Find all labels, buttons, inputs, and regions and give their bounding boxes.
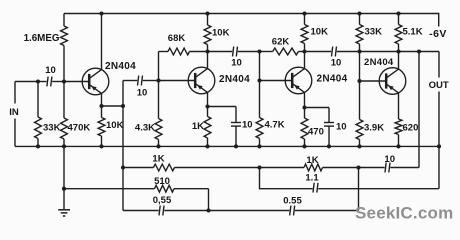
wire top -6V rail: [64, 13, 439, 15]
node x123 junction: [121, 104, 125, 108]
wire Q2 collector up: [207, 52, 209, 69]
wire rowA drop to 1.1 row: [259, 168, 261, 190]
node Q4 base junction: [357, 79, 361, 83]
capacitor C9 0.55 (feedback): [159, 206, 160, 216]
wire Q1 collector to rail: [101, 14, 103, 70]
wire 4.3K top lead: [158, 81, 160, 119]
wire 4.7K bottom lead: [259, 139, 261, 147]
node Q3 base junction: [257, 78, 261, 82]
node ground rail at 10K: [99, 144, 103, 148]
wire rowC middle-left: [164, 210, 208, 212]
svg-text:1K: 1K: [192, 121, 204, 132]
wire bias node to Q4 collector node: [360, 51, 399, 53]
wire 10K(st2) top lead: [207, 14, 209, 26]
wire rowC middle-right: [209, 210, 290, 212]
node Q2 collector junction: [205, 49, 209, 53]
resistor R11 10K (Q3 collector load): [301, 25, 308, 44]
node Q4 base bias junction top: [357, 49, 361, 53]
wire 62K left lead: [260, 51, 273, 53]
node ground / 510 junction: [62, 187, 66, 191]
wire rowC right: [295, 210, 359, 212]
svg-text:10: 10: [242, 119, 253, 130]
wire Q2 collector node to C4: [208, 51, 233, 53]
node Q2 emitter junction: [205, 104, 209, 108]
wire bypass(st3) top lead: [328, 108, 330, 123]
node Q2 base bias junction: [156, 78, 160, 82]
resistor R7 10K (Q2 collector load): [204, 25, 211, 45]
wire 3.9K top lead: [359, 81, 361, 120]
wire Q3 emitter to bypass cap: [305, 107, 330, 109]
svg-text:2N404: 2N404: [105, 61, 136, 72]
resistor R12 470 (Q3 emitter): [301, 118, 308, 139]
node rowA / 0.55 riser junction: [356, 165, 360, 169]
svg-text:4.7K: 4.7K: [265, 119, 285, 130]
capacitor C6 10 (Q3-Q4 coupling): [332, 47, 333, 57]
wire 1.6MEG bottom lead: [63, 46, 65, 82]
node 33K top on rail: [357, 11, 361, 15]
svg-text:4.3K: 4.3K: [135, 122, 155, 133]
svg-text:10: 10: [137, 88, 148, 99]
wire 10K(st3) top lead: [304, 14, 306, 25]
wire Q1 emitter to x123 column: [102, 105, 124, 107]
resistor R14 3.9K (Q4 base to ground): [356, 120, 363, 140]
wire 10K(st2) bottom lead: [207, 45, 209, 52]
node OUT column on ground rail: [437, 144, 441, 148]
wire 1K top lead: [207, 107, 209, 117]
resistor R3 470K (Q1 base to ground): [61, 118, 68, 139]
wire 1.1 row right segment: [318, 188, 439, 190]
resistor R18 1K (feedback): [304, 164, 323, 171]
wire rowA to C7: [359, 167, 385, 169]
resistor R4 10K (Q1 emitter): [98, 118, 105, 137]
svg-text:2N404: 2N404: [364, 57, 394, 68]
wire 1K bottom lead: [207, 138, 209, 146]
wire 470 bottom lead: [304, 139, 306, 146]
svg-text:510: 510: [154, 176, 170, 187]
node 10K(st3) top on rail: [302, 11, 306, 15]
resistor R10 4.7K (Q3 base to ground): [256, 118, 263, 139]
wire rowA middle: [175, 167, 260, 169]
wire -6V stub: [438, 13, 440, 27]
svg-text:10: 10: [231, 58, 242, 69]
wire C1 to base node: [52, 81, 64, 83]
wire Q3 emitter down: [304, 92, 306, 107]
wire input to 33K node: [15, 81, 38, 83]
node Q4 collector junction: [396, 49, 400, 53]
wire rowA right: [390, 167, 419, 169]
node 5.1K top on rail: [396, 11, 400, 15]
resistor R5 68K (Q2 bias): [168, 48, 190, 55]
resistor R2 1.6MEG (Q1 bias): [61, 26, 68, 46]
wire to Q1 base: [64, 81, 89, 83]
wire collector node to OUT column: [399, 51, 440, 53]
wire 4.3K bottom lead: [158, 140, 160, 147]
svg-text:470: 470: [308, 127, 324, 138]
capacitor C5 10 (Q3 emitter bypass): [324, 122, 334, 124]
node 62K left junction: [257, 49, 261, 53]
node Q1 emitter junction: [99, 104, 103, 108]
node Q3 emitter junction: [302, 105, 306, 109]
transistor Q4 (2N404 PNP): [379, 68, 406, 95]
svg-text:68K: 68K: [168, 33, 186, 44]
wire 68K right lead: [190, 51, 208, 53]
wire rowC riser to rowA: [358, 168, 360, 211]
node ground rail at 620: [396, 144, 400, 148]
svg-text:1K: 1K: [152, 153, 164, 164]
svg-text:33K: 33K: [365, 26, 383, 37]
resistor R1 33K (input shunt): [35, 117, 42, 139]
wire to Q4 base: [360, 80, 387, 82]
wire Q2 emitter to bypass cap: [208, 106, 237, 108]
resistor R8 1K (Q2 emitter): [204, 117, 211, 139]
node ground rail at 33K: [36, 144, 40, 148]
wire OUT column to 1.1 row: [438, 146, 440, 188]
node OUT (output terminal): [438, 52, 440, 78]
wire Q3 collector up: [304, 52, 306, 69]
wire to Q2 base: [159, 80, 196, 82]
node ground rail at C3: [234, 144, 238, 148]
wire 33K bottom lead: [37, 139, 39, 147]
wire 5.1K top lead: [398, 14, 400, 25]
wire 1.1 left segment: [260, 188, 313, 190]
node ground rail at 470K/ground: [62, 144, 66, 148]
wire Q4 emitter down: [398, 93, 400, 119]
wire Q1 emitter down: [101, 93, 103, 106]
wire 510 right lead: [174, 188, 209, 190]
svg-text:OUT: OUT: [429, 80, 449, 91]
wire 470K bottom lead: [63, 139, 65, 146]
svg-text:SeekIC.com: SeekIC.com: [355, 204, 453, 223]
node 510 / 0.55 junction: [206, 208, 210, 212]
svg-text:10K: 10K: [106, 120, 124, 131]
wire bypass cap top lead: [235, 107, 237, 123]
wire 68K left lead: [159, 51, 169, 53]
wire rowA left: [123, 167, 154, 169]
wire feedback riser to OUT node (crosses ground rail): [418, 52, 420, 168]
wire C2 to Q2 base node: [143, 80, 159, 82]
wire 510 drop to 0.55 row: [208, 189, 210, 211]
wire to earth ground: [63, 189, 65, 210]
capacitor C7 10 (feedback): [385, 163, 386, 173]
node ground rail at C5: [327, 144, 331, 148]
node ground rail at 470: [302, 144, 306, 148]
svg-text:2N404: 2N404: [219, 74, 250, 85]
wire x123 column down (crosses ground rail): [122, 106, 124, 168]
wire drop to Q3 base node: [259, 52, 261, 81]
svg-text:62K: 62K: [272, 37, 290, 48]
svg-text:33K: 33K: [43, 123, 61, 134]
resistor R16 620 (Q4 emitter): [395, 119, 402, 135]
svg-text:5.1K: 5.1K: [403, 26, 423, 37]
resistor R6 4.3K (Q2 base to ground): [155, 119, 162, 140]
node rowA/rowB junction: [257, 165, 261, 169]
wire bypass(st3) bottom lead: [328, 126, 330, 146]
node ground rail at 1K: [205, 144, 209, 148]
svg-text:10: 10: [336, 122, 347, 133]
wire ground drop: [63, 146, 65, 188]
wire 620 bottom lead: [398, 135, 400, 147]
capacitor C2 10 (Q1-Q2 coupling): [138, 76, 139, 86]
node ground rail at 4.7K: [257, 144, 261, 148]
wire bypass cap bottom lead: [235, 126, 237, 146]
node junction 33K top: [36, 79, 40, 83]
capacitor C3 10 (Q2 emitter bypass): [231, 122, 241, 124]
capacitor C10 0.55 (feedback): [290, 206, 291, 216]
wire Q4 collector up: [398, 52, 400, 70]
svg-text:10K: 10K: [311, 26, 329, 37]
wire 10K top lead: [101, 106, 103, 118]
svg-text:10: 10: [331, 57, 342, 68]
svg-text:10K: 10K: [212, 28, 230, 39]
wire 470K top lead: [63, 82, 65, 119]
svg-text:1.1: 1.1: [305, 172, 319, 183]
svg-text:3.9K: 3.9K: [364, 123, 384, 134]
wire 62K right lead: [298, 51, 304, 53]
transistor Q2 (2N404 PNP): [188, 67, 215, 94]
svg-text:IN: IN: [9, 107, 19, 118]
wire C4 to Q3 bias node: [238, 51, 260, 53]
wire 33K top lead: [37, 82, 39, 118]
wire 33K node to C1: [38, 81, 47, 83]
wire Q2 emitter down: [207, 92, 209, 106]
wire ground rail: [15, 145, 439, 147]
transistor Q3 (2N404 PNP): [285, 67, 312, 94]
svg-text:10: 10: [45, 65, 56, 76]
node ground rail at 3.9K: [357, 144, 361, 148]
svg-text:1.6MEG: 1.6MEG: [24, 33, 60, 44]
resistor R13 33K (Q4 bias): [356, 25, 363, 45]
resistor R9 62K (Q3 bias): [273, 48, 299, 55]
svg-text:0,55: 0,55: [153, 195, 172, 206]
svg-text:470K: 470K: [68, 123, 91, 134]
svg-text:0.55: 0.55: [283, 195, 302, 206]
capacitor C4 10 (Q2-Q3 coupling): [233, 47, 234, 57]
wire 4.7K top lead: [259, 81, 261, 118]
wire to Q3 base: [260, 80, 293, 82]
node feedback tap on collector node line: [417, 49, 421, 53]
capacitor C1 10 (input coupling): [47, 77, 48, 87]
node Q3 collector junction: [302, 49, 306, 53]
node x123 at 1K feedback row: [121, 165, 125, 169]
wire rowA to 0.55 riser: [323, 167, 359, 169]
svg-text:1K: 1K: [306, 155, 318, 166]
wire 33K top lead: [359, 14, 361, 25]
node Q1 base bias junction: [62, 79, 66, 83]
wire 10K bottom lead: [101, 136, 103, 146]
wire 33K bottom lead: [359, 44, 361, 52]
wire drop to Q4 base: [359, 52, 361, 82]
wire C6 to Q4 bias node: [337, 51, 360, 53]
wire 470 top lead: [304, 108, 306, 119]
wire to C2: [123, 80, 137, 82]
svg-text:-6V: -6V: [429, 28, 447, 40]
wire 510 left lead: [64, 188, 155, 190]
node 10K top on rail: [205, 11, 209, 15]
resistor R17 1K (feedback): [154, 164, 175, 171]
ground (earth symbol): [58, 210, 70, 216]
resistor R15 5.1K (Q4 collector load): [395, 25, 402, 45]
wire x123 column up to C2: [122, 81, 124, 107]
svg-text:620: 620: [403, 123, 419, 134]
wire 1.6MEG top lead: [63, 14, 65, 27]
node Q1 collector on rail: [99, 11, 103, 15]
transistor Q1 (2N404 PNP): [82, 68, 109, 95]
wire x123 column down to 0.55 row: [122, 168, 124, 211]
wire 3.9K bottom lead: [359, 140, 361, 147]
svg-text:10: 10: [384, 154, 395, 165]
capacitor C8 1.1 (feedback): [313, 183, 314, 193]
wire Q3 collector node to C6: [305, 51, 332, 53]
wire 10K(st3) bottom lead: [304, 44, 306, 52]
wire rowA to second 1K: [260, 167, 305, 169]
node ground rail at 4.3K: [156, 144, 160, 148]
wire rowC left: [123, 210, 159, 212]
wire 68K drop to Q2 base node: [158, 52, 160, 81]
wire 5.1K bottom lead: [398, 44, 400, 52]
svg-text:2N404: 2N404: [317, 74, 348, 85]
node IN (input terminal): [14, 82, 16, 104]
resistor R19 510 (feedback to ground): [155, 185, 175, 192]
